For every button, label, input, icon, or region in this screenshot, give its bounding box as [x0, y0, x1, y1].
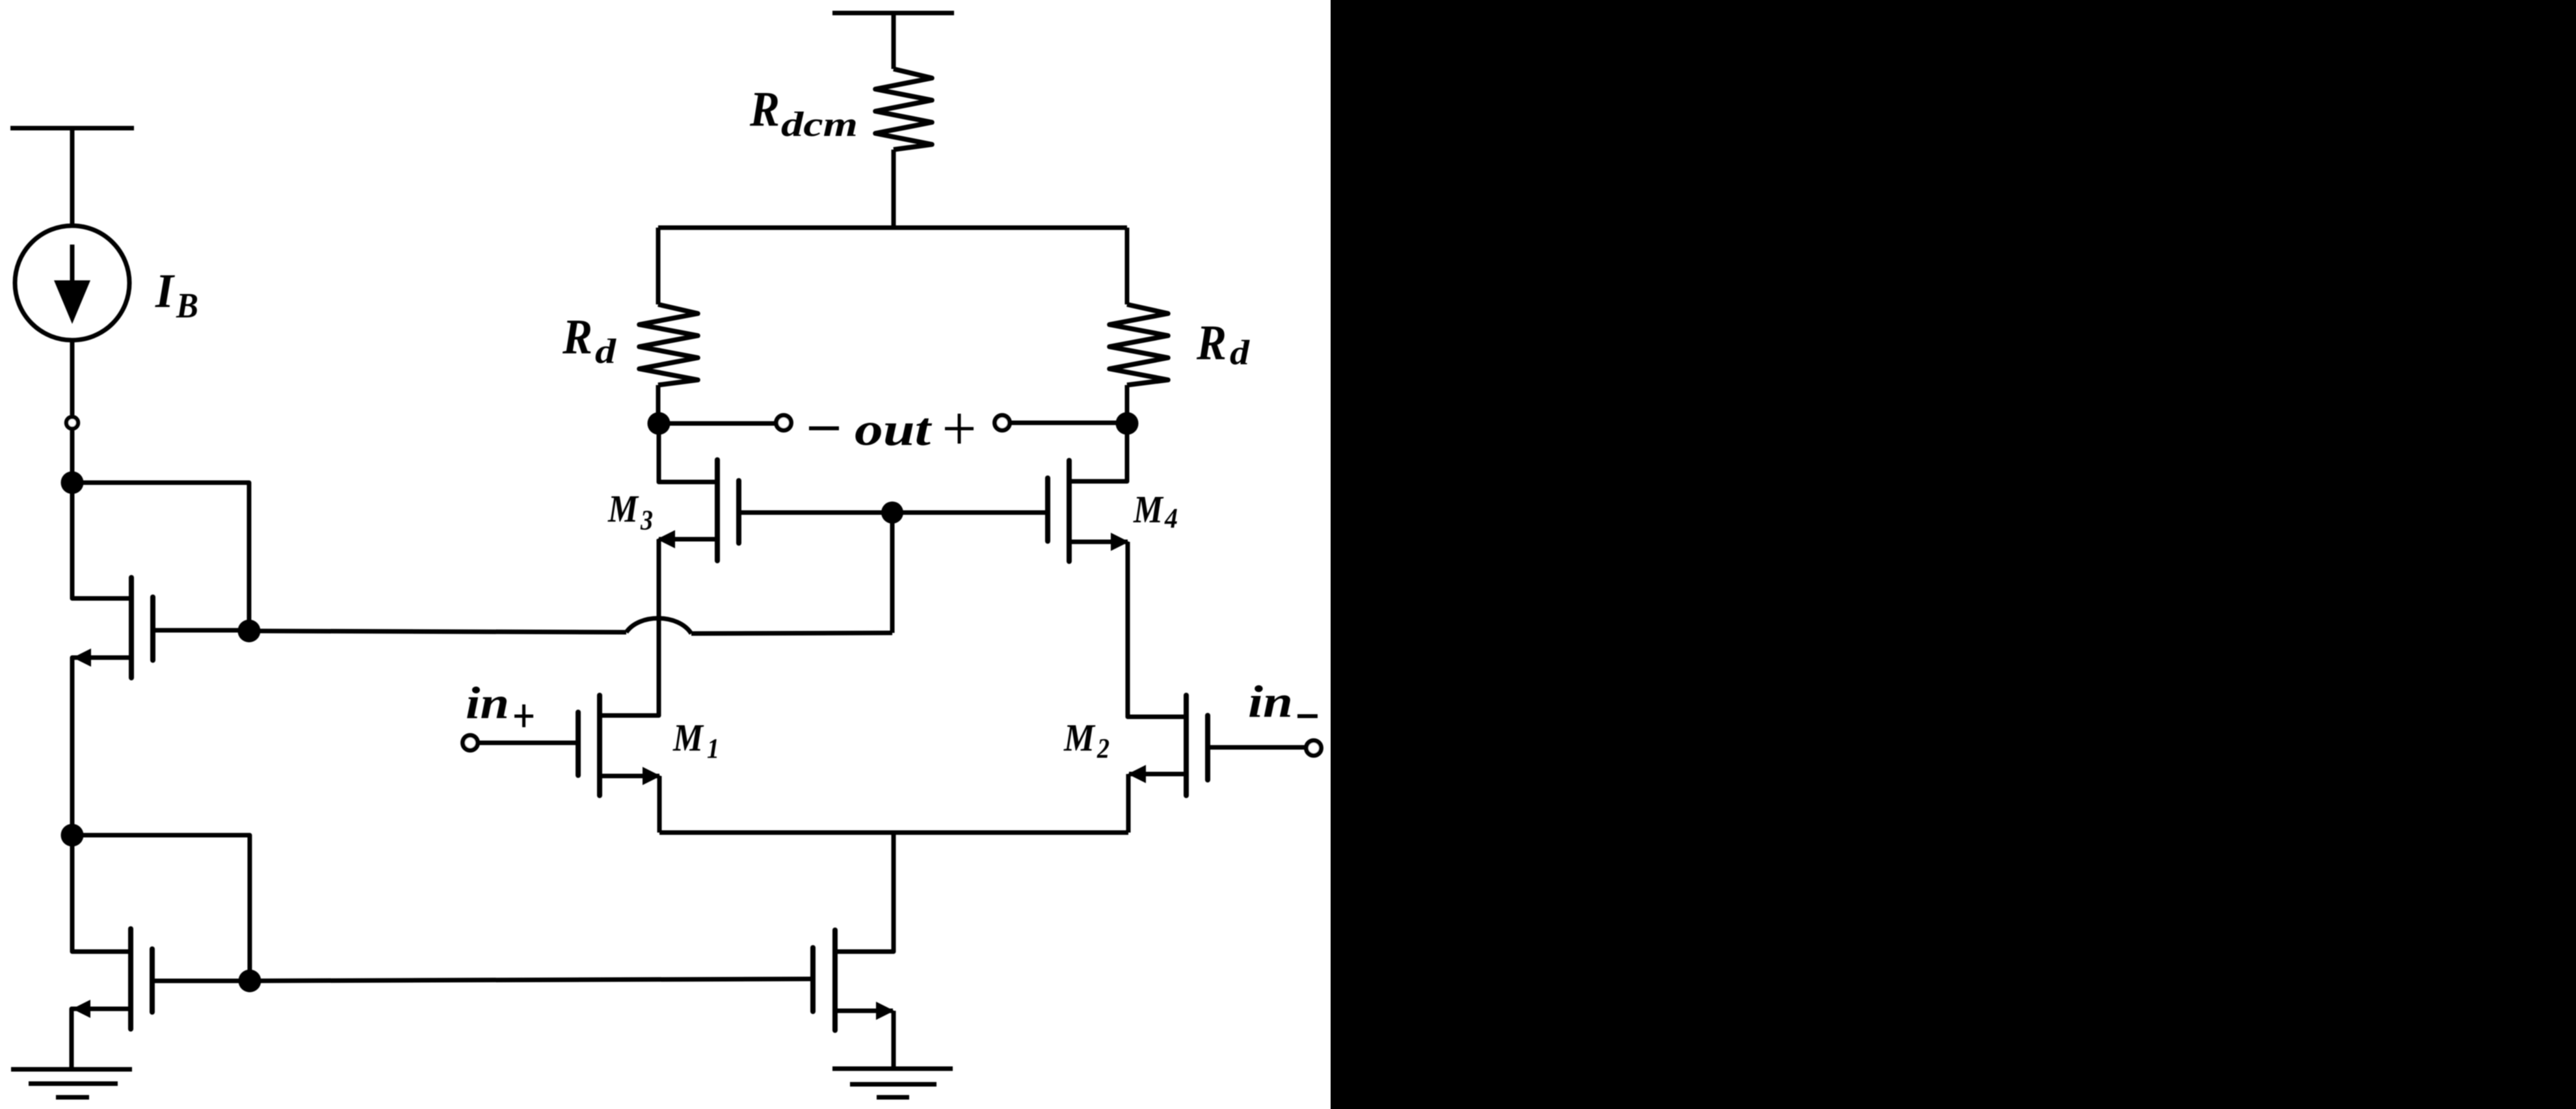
- power rail VDD (top-left): [10, 126, 134, 131]
- svg-text:R: R: [749, 82, 780, 137]
- ground (center): [832, 1069, 953, 1097]
- svg-text:in: in: [466, 678, 509, 728]
- wire: [739, 511, 1048, 515]
- svg-text:4: 4: [1164, 503, 1178, 534]
- terminal in+ (open circle): [463, 736, 478, 751]
- wire: [659, 537, 717, 542]
- svg-text:M: M: [1063, 716, 1096, 759]
- label M2: [1063, 716, 1109, 764]
- wire: [1129, 772, 1186, 777]
- svg-text:1: 1: [707, 734, 719, 764]
- svg-text:R: R: [562, 310, 592, 364]
- transistor M1: [578, 695, 600, 795]
- label - (out minus): [809, 427, 839, 431]
- wire: [70, 431, 75, 483]
- node (junction) M3/M4 gates: [881, 501, 903, 524]
- label + (in plus): [514, 704, 533, 727]
- wire: [1208, 745, 1305, 750]
- svg-text:B: B: [176, 286, 198, 325]
- svg-text:d: d: [595, 332, 617, 371]
- wire: [602, 774, 659, 779]
- transistor M3: [717, 460, 739, 561]
- wire: [658, 226, 1127, 230]
- arrow (mirror-upper source): [73, 648, 91, 667]
- wire: [70, 340, 75, 415]
- wire: [1069, 423, 1127, 481]
- transistor mirror-upper (diode-connected NMOS): [131, 578, 153, 678]
- wire: [153, 628, 249, 633]
- wire: [659, 831, 1128, 835]
- wire: [892, 1011, 896, 1069]
- svg-text:M: M: [672, 716, 704, 759]
- node (junction) mirror mid: [61, 824, 84, 847]
- label in-: [1248, 677, 1293, 727]
- terminal (open circle) below I_B: [66, 417, 78, 429]
- wire: [1125, 385, 1130, 423]
- wire: [659, 423, 717, 482]
- wire hop (crossover arc): [626, 618, 691, 634]
- ground (left): [11, 1069, 132, 1097]
- wire: [72, 1009, 131, 1069]
- terminal out+ (open circle): [995, 416, 1010, 431]
- wire: [72, 835, 129, 952]
- wire: [657, 776, 662, 833]
- label R_d (left): [562, 310, 617, 371]
- wire: [72, 483, 129, 598]
- arrow (M4 source): [1111, 533, 1129, 551]
- terminal in- (open circle): [1307, 741, 1321, 756]
- wire: [890, 513, 895, 633]
- wire: [602, 714, 659, 718]
- power rail VDD (top-center): [832, 11, 954, 16]
- arrow (mirror-lower source): [72, 1000, 90, 1018]
- wire: [838, 833, 894, 952]
- resistor R_dcm: [875, 69, 932, 150]
- node (junction) mirror-lower drain: [239, 970, 261, 993]
- wire: [72, 658, 131, 835]
- arrow (M2 source): [1128, 765, 1146, 783]
- resistor R_d (left): [639, 304, 698, 385]
- wire: [1128, 542, 1186, 717]
- svg-text:I: I: [155, 265, 175, 318]
- arrow (M1 source): [643, 767, 661, 785]
- node (junction) mirror-upper drain: [238, 620, 261, 643]
- wire: [656, 385, 661, 423]
- label M4: [1133, 488, 1178, 534]
- svg-text:2: 2: [1096, 734, 1109, 764]
- wire: [892, 150, 896, 228]
- node (junction) bias gate: [61, 472, 84, 494]
- transistor tail (current sink): [813, 930, 835, 1030]
- transistor mirror-lower (diode-connected NMOS): [131, 929, 152, 1029]
- transistor M4: [1048, 461, 1069, 561]
- svg-text:dcm: dcm: [781, 105, 858, 144]
- wire: [72, 835, 250, 981]
- wire: [72, 483, 249, 631]
- wire: [656, 228, 661, 304]
- wire: [892, 13, 896, 69]
- svg-text:R: R: [1196, 315, 1227, 370]
- node out+ (junction): [1116, 412, 1139, 435]
- label out: [855, 403, 932, 455]
- label M1: [672, 716, 719, 764]
- current source I_B: [15, 226, 129, 340]
- wire: [1069, 540, 1128, 544]
- label - (in minus): [1297, 714, 1318, 718]
- wire: [152, 979, 250, 983]
- label + (out plus): [945, 414, 974, 444]
- label in+: [466, 678, 509, 728]
- node out- (junction): [648, 412, 671, 435]
- label R_d (right): [1196, 315, 1250, 372]
- svg-text:3: 3: [640, 505, 653, 536]
- wire: [1011, 421, 1127, 425]
- terminal out- (open circle): [777, 416, 791, 431]
- arrow (M3 source): [657, 530, 675, 548]
- resistor R_d (right): [1109, 304, 1168, 385]
- wire: [70, 128, 75, 227]
- label R_dcm: [749, 82, 858, 144]
- wire: [249, 631, 626, 632]
- svg-text:out: out: [855, 403, 932, 455]
- arrow (tail source): [876, 1002, 894, 1020]
- svg-text:in: in: [1248, 677, 1293, 727]
- svg-text:M: M: [1133, 488, 1164, 531]
- label M3: [607, 487, 653, 536]
- wire: [479, 741, 578, 745]
- transistor M2: [1186, 695, 1208, 795]
- wire: [691, 633, 892, 634]
- wire: [1126, 774, 1131, 833]
- wire: [1125, 228, 1130, 304]
- wire: [659, 421, 775, 426]
- label I_B: [155, 265, 198, 325]
- svg-text:M: M: [607, 487, 639, 530]
- wire: [250, 979, 812, 981]
- svg-text:d: d: [1230, 333, 1250, 372]
- wire: [602, 539, 659, 715]
- wire: [838, 1009, 893, 1013]
